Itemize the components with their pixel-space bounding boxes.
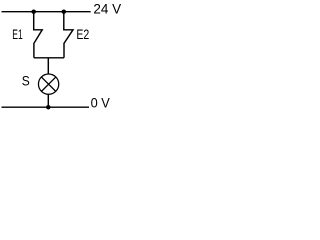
svg-text:E2: E2 xyxy=(76,26,89,42)
svg-text:S: S xyxy=(22,72,30,88)
wire: OR junction joining E1 and E2 branches xyxy=(34,58,64,74)
node: junction of E2 branch with 24V rail xyxy=(62,9,67,14)
node: junction of E1 branch with 24V rail xyxy=(31,9,36,14)
node: junction of lamp branch with 0V rail xyxy=(46,105,51,110)
lamp S (indicator light, circle with X) xyxy=(38,74,58,94)
svg-text:24 V: 24 V xyxy=(93,0,121,16)
wire: +24V supply rail xyxy=(2,11,91,13)
svg-text:0 V: 0 V xyxy=(91,95,111,111)
contact E1 (normally-open switch) with terminal wires xyxy=(34,12,43,58)
wire: 0V return rail xyxy=(2,106,90,108)
contact E2 (normally-open switch) with terminal wires xyxy=(64,12,73,58)
wire: lamp to 0V rail xyxy=(47,95,49,108)
svg-text:E1: E1 xyxy=(12,26,23,42)
